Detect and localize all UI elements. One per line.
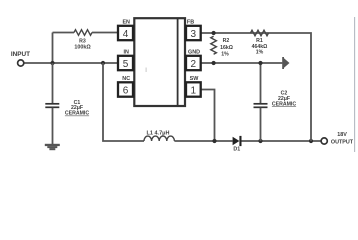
svg-text:1%: 1% <box>256 50 264 56</box>
pin 1 box <box>186 82 201 96</box>
wire FB rail <box>201 33 311 141</box>
ground flag arrow <box>282 57 284 69</box>
IC inner edge line <box>177 18 179 106</box>
pin 2 box <box>186 56 201 70</box>
svg-text:5: 5 <box>123 59 129 70</box>
resistor R2 <box>211 36 217 54</box>
svg-text:CERAMIC: CERAMIC <box>65 111 89 117</box>
junction input/L1 <box>101 61 105 65</box>
pin 6 box <box>118 82 133 96</box>
faint interior mark <box>146 68 147 73</box>
svg-text:1: 1 <box>191 85 197 96</box>
svg-text:FB: FB <box>187 19 194 25</box>
wire EN branch horizontal left <box>53 32 75 34</box>
svg-text:L1 4.7μH: L1 4.7μH <box>147 131 170 137</box>
wire L1 branch <box>103 63 144 141</box>
svg-text:INPUT: INPUT <box>11 51 30 58</box>
junction R2 bottom <box>212 61 216 65</box>
wire GND rail <box>201 62 283 64</box>
svg-text:EN: EN <box>122 19 130 25</box>
svg-text:IN: IN <box>123 49 128 55</box>
pin 5 box <box>118 56 133 70</box>
resistor R3 <box>74 30 92 36</box>
ground <box>45 144 60 146</box>
input terminal <box>18 60 24 66</box>
capacitor C1 <box>52 63 54 103</box>
wire EN branch vertical <box>52 33 54 64</box>
junction R2 top <box>212 31 216 35</box>
wire diode to output <box>242 140 322 142</box>
svg-text:100kΩ: 100kΩ <box>74 45 91 51</box>
diode D1 <box>233 137 240 145</box>
faint page rule line <box>354 17 356 152</box>
svg-text:6: 6 <box>123 85 129 96</box>
svg-text:NC: NC <box>122 76 130 82</box>
svg-text:3: 3 <box>191 29 197 40</box>
wire L1 to diode <box>174 140 232 142</box>
junction SW/L1 <box>212 139 216 143</box>
output terminal <box>321 138 327 144</box>
pin 3 box <box>186 26 201 40</box>
pin 4 box <box>118 26 133 40</box>
svg-text:GND: GND <box>188 49 200 55</box>
svg-text:1%: 1% <box>221 51 229 57</box>
junction C2 bottom <box>258 139 262 143</box>
wire SW drop <box>201 90 215 142</box>
svg-text:OUTPUT: OUTPUT <box>331 140 354 146</box>
svg-text:16kΩ: 16kΩ <box>220 45 233 51</box>
svg-text:18V: 18V <box>337 132 347 138</box>
junction input/EN <box>50 61 54 65</box>
svg-text:4: 4 <box>123 29 129 40</box>
capacitor C2 <box>260 63 262 103</box>
resistor R1 <box>251 30 269 36</box>
inductor L1 <box>144 136 174 141</box>
junction Vout sense <box>309 139 313 143</box>
svg-text:2: 2 <box>191 59 197 70</box>
op IC body U1 <box>134 18 185 106</box>
svg-text:SW: SW <box>190 76 200 82</box>
wire R3 to pin4 <box>92 32 118 34</box>
svg-text:R2: R2 <box>223 38 230 44</box>
svg-text:CERAMIC: CERAMIC <box>272 101 296 107</box>
junction C2 top <box>258 61 262 65</box>
wire input rail <box>24 62 118 64</box>
svg-text:D1: D1 <box>233 147 240 153</box>
